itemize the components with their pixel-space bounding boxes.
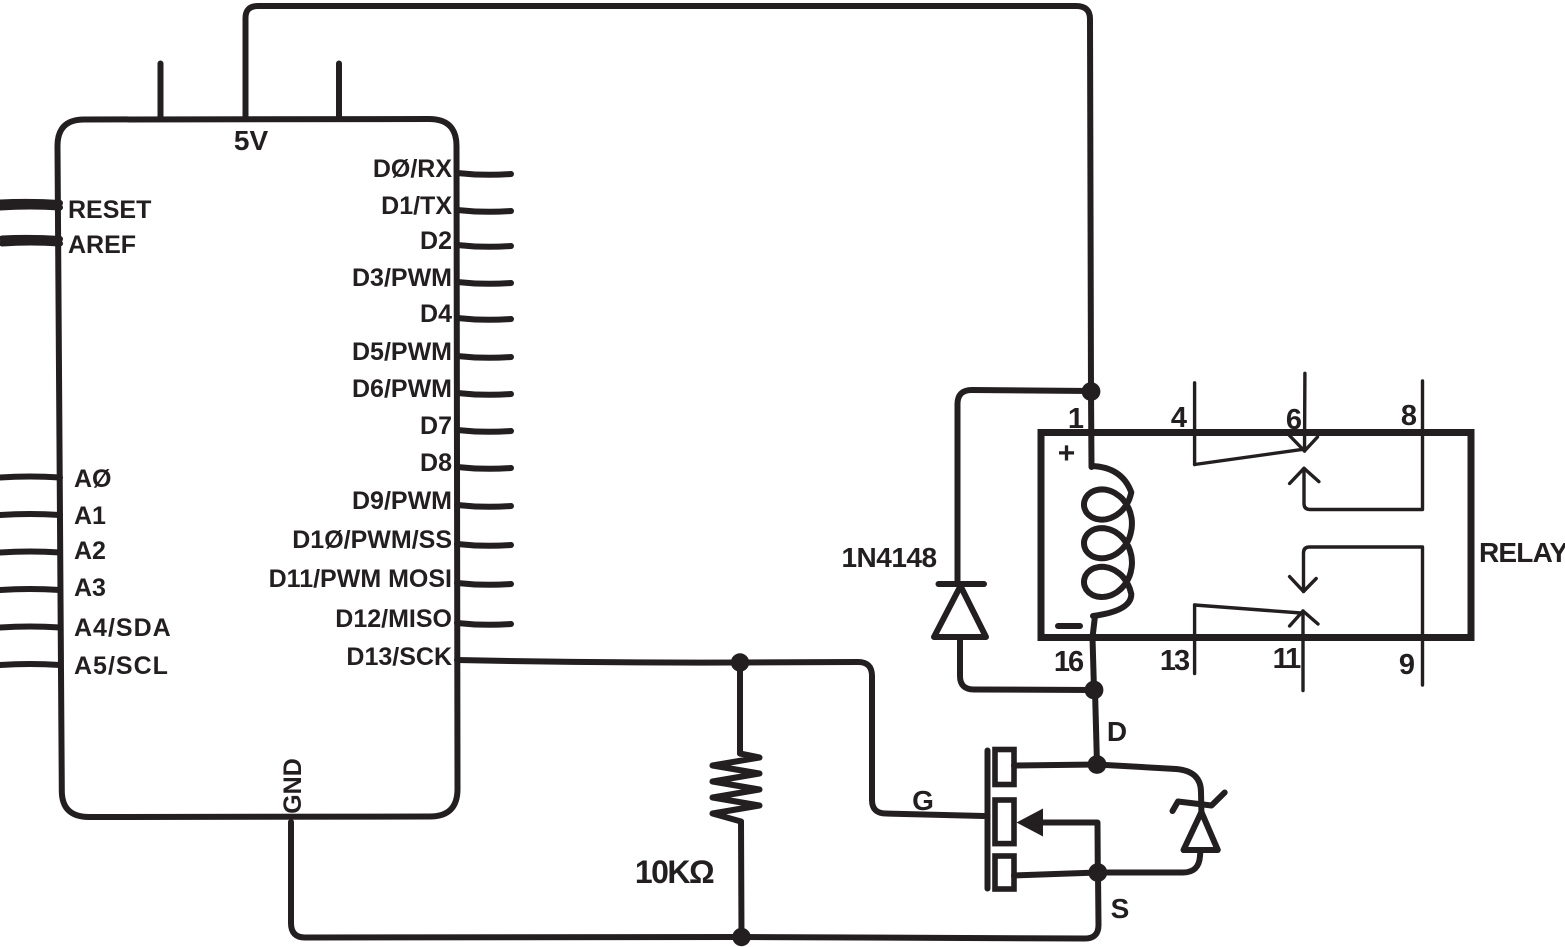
pin D5/PWM (457, 356, 511, 358)
svg-text:D: D (1107, 716, 1127, 747)
relay pin 13 lead (1193, 605, 1196, 674)
svg-text:GND: GND (279, 758, 307, 814)
svg-text:D2: D2 (420, 227, 452, 255)
svg-text:+: + (1058, 437, 1076, 470)
relay pin 11 arrowhead (1290, 611, 1318, 626)
svg-text:AREF: AREF (68, 231, 136, 259)
svg-text:8: 8 (1401, 400, 1417, 432)
svg-text:RESET: RESET (68, 196, 151, 224)
pin D1/TX (457, 210, 511, 212)
mosfet Q1 drain region box (995, 750, 1014, 785)
junction dot coil top (pin 1 node) (1082, 382, 1101, 401)
mosfet Q1 body arrowhead (1017, 809, 1044, 837)
relay coil wire pin 1 to coil (1088, 392, 1095, 468)
pin A4/SDA (0, 627, 60, 628)
pin D12/MISO (457, 623, 511, 625)
pin D11/PWM MOSI (457, 583, 511, 585)
relay pin 6 lead with down arrow (1303, 373, 1307, 451)
svg-text:D5/PWM: D5/PWM (352, 338, 452, 366)
svg-text:D4: D4 (420, 300, 452, 328)
svg-text:1N4148: 1N4148 (841, 542, 936, 573)
pin D10/PWM/SS (457, 544, 511, 546)
svg-text:D7: D7 (420, 412, 452, 440)
svg-text:1: 1 (1068, 403, 1084, 435)
pin D4 (457, 318, 511, 320)
pin D7 (457, 430, 511, 432)
mosfet Q1 source region box (995, 856, 1014, 889)
junction dot source node S (1088, 863, 1107, 882)
junction dot resistor bottom / GND wire (732, 928, 750, 946)
relay pin 9 lead and link (1304, 547, 1423, 685)
svg-text:D12/MISO: D12/MISO (335, 605, 452, 633)
pin A0 (0, 477, 60, 478)
svg-text:D8: D8 (420, 449, 452, 477)
wire resistor bottom lead (738, 822, 745, 938)
wire zener bottom: zener anode to source node (1098, 850, 1201, 873)
wire D13 net: from D13/SCK pin to MOSFET gate (457, 660, 984, 816)
label relay coil minus (1058, 623, 1080, 629)
wire GND net: arduino GND pin down and along the bottom to MOSFET source (291, 822, 1099, 939)
svg-text:D6/PWM: D6/PWM (352, 375, 452, 403)
svg-text:A3: A3 (74, 574, 106, 602)
svg-text:AØ: AØ (74, 465, 112, 493)
relay coil (3-loop hand-drawn inductor) (1084, 466, 1132, 616)
svg-text:10KΩ: 10KΩ (635, 854, 714, 890)
svg-text:A2: A2 (74, 537, 106, 565)
wire flyback: coil top junction left and down to diode cathode (958, 390, 1092, 584)
svg-text:D11/PWM MOSI: D11/PWM MOSI (269, 565, 452, 593)
relay top up arrowhead (1290, 468, 1319, 483)
diode D1 1N4148 cathode bar (939, 581, 985, 587)
relay bottom down arrowhead (1290, 577, 1317, 592)
wire zener top: drain node to zener cathode (1097, 765, 1201, 813)
resistor R1 10K zigzag (713, 754, 760, 822)
pin D6/PWM (457, 393, 511, 395)
pin D9/PWM (457, 505, 511, 507)
svg-text:11: 11 (1273, 643, 1302, 675)
svg-text:16: 16 (1054, 646, 1084, 678)
svg-text:6: 6 (1286, 404, 1302, 436)
mosfet Q1 body arrow wire (1042, 823, 1098, 873)
svg-text:D13/SCK: D13/SCK (346, 643, 452, 671)
svg-text:D3/PWM: D3/PWM (352, 264, 452, 292)
wire source: mosfet source to S node (1014, 873, 1098, 876)
wire flyback: diode anode down and right to coil bottom junction (960, 637, 1094, 690)
relay top contact blade (pin 4 to pin 6) (1195, 449, 1303, 464)
relay pin 6 arrowhead (1288, 434, 1318, 451)
pin A1 (0, 514, 60, 515)
wire resistor top lead (737, 663, 743, 754)
svg-text:G: G (912, 785, 934, 816)
svg-text:RELAY: RELAY (1479, 537, 1565, 568)
pin A5/SCL (0, 664, 60, 665)
junction dot D13 / resistor top (731, 653, 749, 671)
svg-text:D9/PWM: D9/PWM (352, 487, 452, 515)
pin RESET (doubled hand stroke) (0, 207, 60, 208)
svg-text:4: 4 (1171, 402, 1187, 434)
svg-text:A4/SDA: A4/SDA (74, 614, 172, 642)
svg-text:D1Ø/PWM/SS: D1Ø/PWM/SS (292, 526, 452, 554)
diode D1 1N4148 triangle (934, 586, 986, 637)
svg-text:S: S (1111, 893, 1130, 924)
svg-text:13: 13 (1160, 645, 1190, 677)
svg-text:D1/TX: D1/TX (381, 192, 452, 220)
relay top contact up arrow to pin 8 (1304, 381, 1423, 510)
zener diode D2 triangle (1184, 812, 1218, 850)
svg-text:5V: 5V (234, 125, 269, 156)
pin A3 (0, 589, 60, 590)
arduino board U1 outline (57, 119, 457, 817)
pin D2 (457, 245, 511, 247)
svg-text:A1: A1 (74, 502, 106, 530)
pin stub top-left of arduino (158, 64, 164, 120)
pin stub top-right of arduino (336, 64, 342, 120)
relay coil wire to pin 16 node (1093, 616, 1096, 690)
junction dot coil bottom (pin 16 node) (1085, 681, 1104, 700)
svg-text:A5/SCL: A5/SCL (74, 652, 169, 680)
mosfet Q1 gate bar (985, 751, 991, 889)
svg-text:9: 9 (1399, 649, 1415, 681)
mosfet Q1 body region box (995, 800, 1014, 844)
pin D3/PWM (457, 282, 511, 284)
pin D0/RX (457, 173, 511, 175)
pin AREF (doubled hand stroke) (2, 243, 60, 244)
pin A2 (0, 552, 60, 553)
zener diode D2 bent cathode bar (1173, 793, 1225, 812)
wire drain: mosfet drain to relay coil junction (1014, 690, 1097, 766)
relay K1 body outline (1041, 433, 1471, 638)
svg-text:DØ/RX: DØ/RX (373, 155, 453, 183)
pin D8 (457, 467, 511, 469)
junction dot drain node D (1088, 755, 1107, 774)
relay pin 11 lead with up arrow (1301, 611, 1304, 691)
relay bottom contact blade (pin 13 to pin 11) (1195, 605, 1301, 613)
relay pin 4 lead (1193, 383, 1196, 465)
wire 5V net: arduino 5V pin up, across top, down to relay coil (246, 6, 1092, 392)
